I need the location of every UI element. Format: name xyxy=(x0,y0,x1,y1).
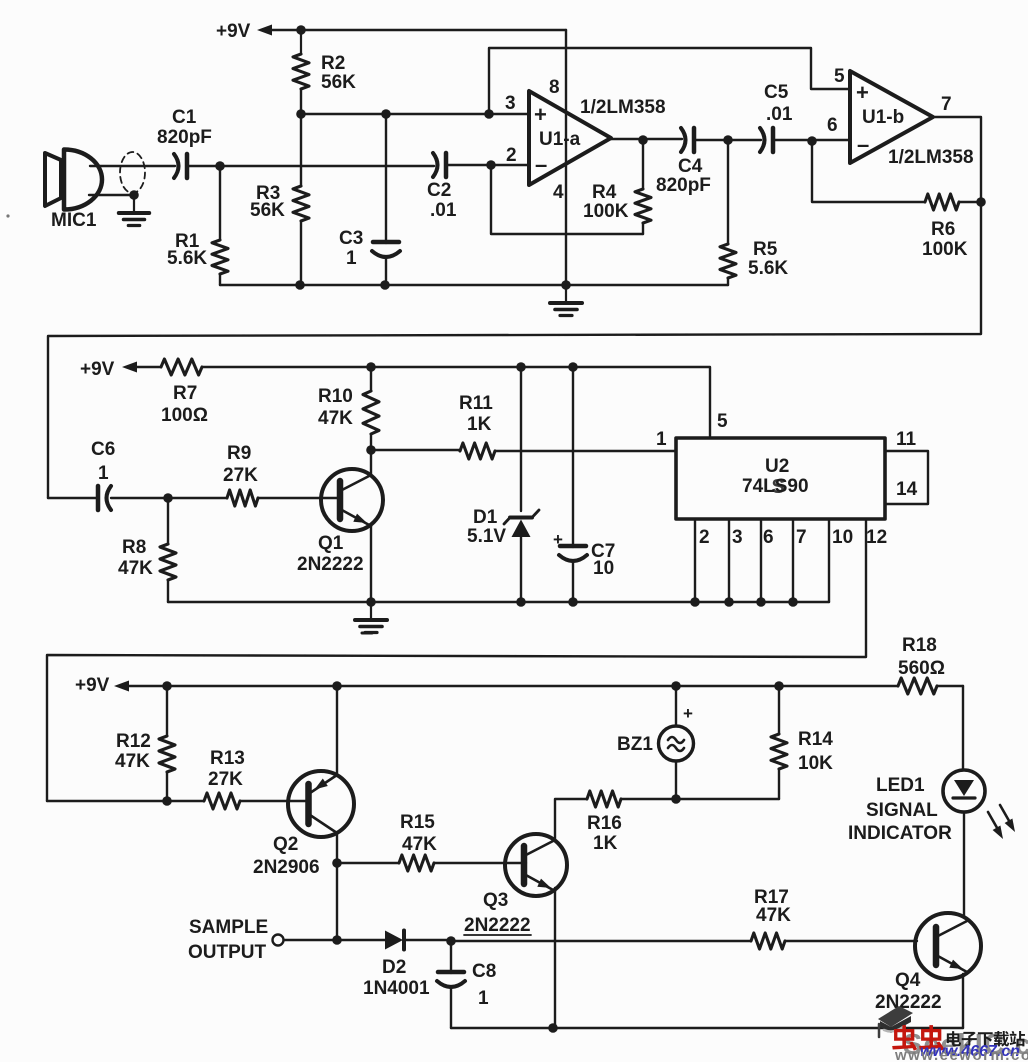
svg-text:1K: 1K xyxy=(467,414,492,435)
junction R12 top xyxy=(162,681,172,691)
svg-text:R6: R6 xyxy=(931,219,955,240)
svg-text:100K: 100K xyxy=(922,239,968,260)
junction C7 top xyxy=(568,362,578,372)
svg-text:1/2LM358: 1/2LM358 xyxy=(580,97,666,118)
terminal SAMPLE OUTPUT xyxy=(273,935,284,946)
wire +9V rail to pin 8 xyxy=(271,29,566,31)
power +9V arrow (bottom) xyxy=(114,681,129,692)
wire R17 line xyxy=(451,940,751,942)
svg-text:U1-b: U1-b xyxy=(862,107,904,128)
buzzer BZ1 xyxy=(675,686,677,726)
svg-text:47K: 47K xyxy=(318,408,353,429)
svg-text:R7: R7 xyxy=(173,383,197,404)
resistor R11 xyxy=(460,443,495,459)
wire output down to mid section xyxy=(48,202,981,498)
transistor Q1 xyxy=(321,469,383,531)
capacitor C2 xyxy=(433,153,438,177)
wire C6 to R9 xyxy=(111,497,227,499)
resistor R4 xyxy=(642,140,644,189)
svg-text:1N4001: 1N4001 xyxy=(363,978,430,999)
svg-text:Q1: Q1 xyxy=(318,533,344,554)
resistor R2 xyxy=(300,30,302,54)
junction R2 top xyxy=(296,25,306,35)
svg-text:R18: R18 xyxy=(902,635,937,656)
transistor Q4 xyxy=(915,913,981,979)
svg-text:3: 3 xyxy=(732,527,743,548)
capacitor C7 xyxy=(572,367,574,547)
junction R6/output xyxy=(976,197,986,207)
wire U2 pin 6 xyxy=(760,519,762,602)
resistor R17 xyxy=(751,933,785,949)
junction D1 top xyxy=(516,362,526,372)
svg-text:–: – xyxy=(857,132,869,157)
wire Q4 emitter xyxy=(962,974,964,1028)
svg-text:R14: R14 xyxy=(798,729,833,750)
svg-text:1K: 1K xyxy=(593,833,618,854)
svg-text:+: + xyxy=(856,80,869,105)
svg-text:SAMPLE: SAMPLE xyxy=(189,917,268,938)
svg-text:27K: 27K xyxy=(223,465,258,486)
junction pin3/ground xyxy=(724,597,734,607)
junction R14 top xyxy=(774,681,784,691)
wire feedback R4 to pin 2 xyxy=(491,165,643,234)
junction output/R4 xyxy=(638,135,648,145)
svg-text:R4: R4 xyxy=(592,182,617,203)
junction Q1 emitter/ground xyxy=(366,597,376,607)
svg-text:www.eeworm.com: www.eeworm.com xyxy=(894,1047,1028,1062)
wire R18 to LED1 xyxy=(962,686,964,770)
junction BZ1 top xyxy=(671,681,681,691)
resistor R16 xyxy=(587,791,621,807)
svg-text:5.1V: 5.1V xyxy=(467,526,506,547)
resistor R1 xyxy=(219,166,221,240)
svg-text:12: 12 xyxy=(866,527,887,548)
junction BZ1 bottom xyxy=(671,794,681,804)
svg-text:7: 7 xyxy=(796,527,807,548)
junction Q2 collector/R15 xyxy=(332,858,342,868)
wire mic output to C1 xyxy=(90,165,175,167)
svg-text:R9: R9 xyxy=(227,443,251,464)
junction Q3 emitter/rail xyxy=(548,1023,558,1033)
junction pin7/ground xyxy=(788,597,798,607)
svg-text:56K: 56K xyxy=(250,200,285,221)
svg-text:R5: R5 xyxy=(753,239,778,260)
wire U1-b output xyxy=(933,117,981,202)
junction C1/R1 xyxy=(215,161,225,171)
svg-text:SIGNAL: SIGNAL xyxy=(866,800,938,821)
resistor R13 xyxy=(204,793,240,809)
svg-text:5.6K: 5.6K xyxy=(167,248,207,269)
svg-text:11: 11 xyxy=(896,429,917,450)
junction node A / U1-b branch xyxy=(484,109,494,119)
svg-text:5.6K: 5.6K xyxy=(748,258,788,279)
svg-text:7: 7 xyxy=(941,94,952,115)
resistor R10 xyxy=(363,391,379,434)
svg-text:1: 1 xyxy=(478,988,489,1009)
capacitor C3 xyxy=(385,114,387,243)
wire Q2 collector xyxy=(336,833,338,940)
transistor Q2 xyxy=(288,771,354,837)
junction C5/pin6/R6 xyxy=(807,136,817,146)
junction C6/R8/R9 xyxy=(163,493,173,503)
wire U1-a output xyxy=(611,138,682,140)
junction C4/C5/R5 xyxy=(723,135,733,145)
stray mark xyxy=(362,632,372,635)
capacitor C4 xyxy=(681,128,686,152)
svg-text:14: 14 xyxy=(896,479,918,500)
svg-text:100K: 100K xyxy=(583,201,629,222)
ground (mic) xyxy=(133,196,135,212)
svg-text:5: 5 xyxy=(834,66,845,87)
svg-text:D1: D1 xyxy=(473,507,498,528)
wire U2 pin 7 xyxy=(792,519,794,602)
svg-text:R2: R2 xyxy=(321,53,345,74)
capacitor C6 xyxy=(96,486,101,510)
svg-text:D2: D2 xyxy=(382,957,406,978)
svg-text:+: + xyxy=(553,530,563,549)
wire output line to D2 xyxy=(284,939,385,941)
wire frame to C6 xyxy=(48,497,98,499)
wire R11 line to U2 pin 1 xyxy=(371,449,460,451)
microphone MIC1 xyxy=(45,153,61,206)
svg-text:47K: 47K xyxy=(115,751,150,772)
svg-text:560Ω: 560Ω xyxy=(898,658,945,679)
resistor R9 xyxy=(227,490,258,506)
capacitor C1 xyxy=(174,154,179,178)
svg-text:6: 6 xyxy=(763,527,774,548)
wire Q1 emitter xyxy=(370,526,372,602)
svg-text:6: 6 xyxy=(827,115,838,136)
wire pin12 feed to R13 xyxy=(47,800,204,802)
zener diode D1 xyxy=(520,367,522,511)
ground rail (top section) xyxy=(220,284,728,286)
wire C5 to pin 6 xyxy=(775,139,850,141)
resistor R15 xyxy=(337,862,399,864)
junction node A / C3 branch xyxy=(381,109,391,119)
junction R10 top xyxy=(366,362,376,372)
resistor R6 xyxy=(812,141,925,202)
junction Q2 collector/output xyxy=(332,935,342,945)
shield dashed ellipse xyxy=(120,152,145,193)
svg-text:1/2LM358: 1/2LM358 xyxy=(888,147,974,168)
power +9V arrow (middle) xyxy=(122,362,137,373)
svg-text:.01: .01 xyxy=(766,104,793,125)
wire Q3 emitter xyxy=(554,888,556,1028)
svg-text:R13: R13 xyxy=(210,748,245,769)
svg-text:+9V: +9V xyxy=(80,359,115,380)
svg-text:47K: 47K xyxy=(118,558,153,579)
ground rail (middle) xyxy=(168,601,829,603)
wire U2 pin 12 route to bottom xyxy=(47,519,866,801)
svg-text:C8: C8 xyxy=(472,961,496,982)
svg-text:U1-a: U1-a xyxy=(539,129,581,150)
junction R10/R11/collector xyxy=(366,445,376,455)
svg-text:S: S xyxy=(772,476,785,498)
svg-text:C1: C1 xyxy=(172,107,197,128)
svg-text:C2: C2 xyxy=(427,180,451,201)
transistor Q3 xyxy=(505,834,567,896)
svg-text:2N2222: 2N2222 xyxy=(464,915,531,936)
svg-text:+: + xyxy=(534,102,547,127)
svg-text:Q3: Q3 xyxy=(483,890,508,911)
svg-text:–: – xyxy=(535,152,547,177)
svg-text:OUTPUT: OUTPUT xyxy=(188,942,267,963)
svg-text:C4: C4 xyxy=(678,156,703,177)
wire C1 to C2 xyxy=(189,165,434,167)
svg-text:.01: .01 xyxy=(430,200,457,221)
svg-text:1: 1 xyxy=(98,463,109,484)
resistor R18 xyxy=(898,678,937,694)
ground (top section) xyxy=(565,286,567,302)
svg-text:8: 8 xyxy=(549,77,560,98)
svg-text:5: 5 xyxy=(717,411,728,432)
wire R14 bottom corner xyxy=(676,798,779,800)
svg-text:C3: C3 xyxy=(339,228,363,249)
wire LED1 to Q4 collector xyxy=(963,812,965,917)
capacitor C8 xyxy=(450,941,452,973)
power +9V arrow (top) xyxy=(257,25,272,36)
svg-text:+: + xyxy=(683,704,693,723)
junction mic ground xyxy=(129,190,139,200)
resistor R8 xyxy=(167,498,169,544)
junction C3 / ground rail xyxy=(380,280,390,290)
svg-text:2N2906: 2N2906 xyxy=(253,857,320,878)
op-amp U1-a xyxy=(529,91,611,185)
stray speck xyxy=(6,214,9,217)
resistor R7 xyxy=(137,366,161,368)
junction pin6/ground xyxy=(756,597,766,607)
junction D2/C8/R17 xyxy=(446,936,456,946)
svg-text:R8: R8 xyxy=(122,537,146,558)
svg-text:+9V: +9V xyxy=(216,21,251,42)
wire node A bias line xyxy=(301,113,529,115)
svg-text:BZ1: BZ1 xyxy=(617,734,653,755)
svg-text:47K: 47K xyxy=(402,834,437,855)
resistor R5 xyxy=(727,140,729,244)
ground (middle) xyxy=(370,603,372,619)
junction R2 bottom node A xyxy=(296,109,306,119)
wire Q3 collector xyxy=(555,799,587,840)
svg-text:U2: U2 xyxy=(765,456,789,477)
svg-text:2: 2 xyxy=(699,527,710,548)
junction R3 / ground rail xyxy=(295,280,305,290)
svg-text:C6: C6 xyxy=(91,439,115,460)
resistor R3 xyxy=(300,114,302,186)
wire U2 pin 2 xyxy=(694,519,696,602)
op-amp U1-b xyxy=(850,71,933,163)
svg-text:C5: C5 xyxy=(764,82,789,103)
wire U2 pin 10 xyxy=(828,519,830,602)
junction pin4 / ground rail xyxy=(561,280,571,290)
svg-text:820pF: 820pF xyxy=(157,127,212,148)
junction R12/R13 xyxy=(162,796,172,806)
wire Q1 collector xyxy=(370,450,372,475)
svg-text:47K: 47K xyxy=(756,905,791,926)
IC U2 74LS90 xyxy=(676,438,885,519)
svg-text:R10: R10 xyxy=(318,386,353,407)
wire bias to U1-b pin 5 xyxy=(489,48,850,114)
svg-text:10K: 10K xyxy=(798,753,833,774)
resistor R12 xyxy=(166,686,168,736)
junction D1/ground xyxy=(516,597,526,607)
svg-text:3: 3 xyxy=(505,93,516,114)
svg-text:MIC1: MIC1 xyxy=(51,210,97,231)
svg-text:1: 1 xyxy=(346,248,357,269)
wire C4 to C5 xyxy=(696,139,761,141)
wire pin8/pin4 vertical xyxy=(565,30,567,285)
svg-text:2: 2 xyxy=(506,145,517,166)
svg-text:LED1: LED1 xyxy=(876,775,925,796)
resistor R14 xyxy=(778,686,780,734)
wire C2 to pin 2 xyxy=(447,164,529,166)
svg-text:Q2: Q2 xyxy=(273,834,298,855)
wire +9V rail (bottom) xyxy=(129,685,898,687)
svg-text:INDICATOR: INDICATOR xyxy=(848,823,952,844)
junction pin2/feedback xyxy=(486,160,496,170)
svg-text:4: 4 xyxy=(553,182,564,203)
svg-text:Q4: Q4 xyxy=(895,970,921,991)
LED light arrows xyxy=(988,812,1000,833)
svg-text:R11: R11 xyxy=(459,393,493,414)
svg-text:R16: R16 xyxy=(587,813,622,834)
svg-text:R12: R12 xyxy=(116,731,151,752)
svg-text:R15: R15 xyxy=(400,812,435,833)
svg-text:10: 10 xyxy=(593,558,614,579)
svg-text:820pF: 820pF xyxy=(656,175,711,196)
svg-text:2N2222: 2N2222 xyxy=(875,992,942,1013)
junction pin2/ground xyxy=(690,597,700,607)
capacitor C5 xyxy=(760,128,765,152)
svg-text:+9V: +9V xyxy=(75,675,110,696)
LED LED1 xyxy=(943,770,985,812)
wire 5.1V rail xyxy=(202,367,710,438)
wire U2 pins 11-14 loop xyxy=(885,451,928,504)
wire bottom rail xyxy=(451,1027,963,1029)
svg-text:10: 10 xyxy=(832,527,853,548)
wire mic ground lead xyxy=(89,194,134,196)
svg-text:100Ω: 100Ω xyxy=(161,405,208,426)
wire Q2 emitter xyxy=(336,686,338,775)
svg-text:1: 1 xyxy=(656,429,667,450)
svg-text:2N2222: 2N2222 xyxy=(297,554,364,575)
diode D2 xyxy=(385,931,403,950)
svg-text:56K: 56K xyxy=(321,72,356,93)
wire U2 pin 3 xyxy=(728,519,730,602)
junction C7/ground xyxy=(568,597,578,607)
junction Q2 emitter top xyxy=(332,681,342,691)
svg-text:27K: 27K xyxy=(208,769,243,790)
